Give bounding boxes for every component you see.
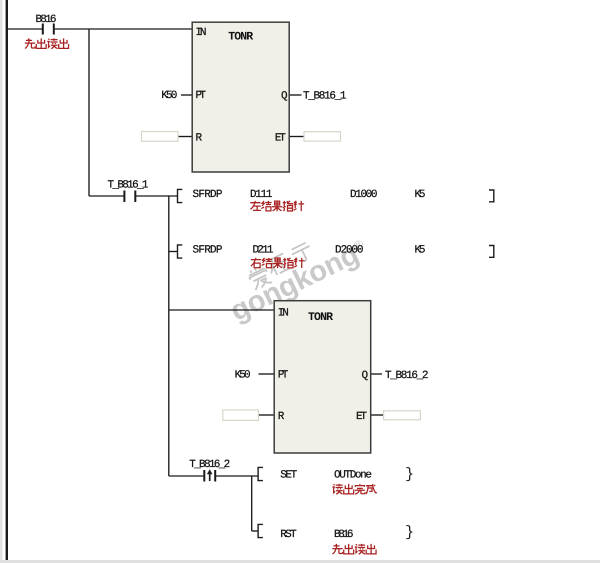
svg-text:D211: D211: [253, 244, 274, 256]
rising edge arrow: [207, 469, 213, 481]
wire rung1 left: [8, 28, 42, 30]
bracket ] row2: [489, 246, 494, 258]
TONR1 ET stub: [290, 136, 304, 138]
svg-text:PT: PT: [278, 370, 289, 382]
TONR2 ET stub: [371, 414, 384, 416]
TONR2 PT stub: [259, 373, 275, 375]
bracket [ RST row: [258, 524, 263, 537]
black labels: [36, 14, 429, 541]
svg-text:}: }: [405, 466, 414, 483]
svg-text:D1000: D1000: [350, 189, 378, 201]
box R1 input: [142, 132, 179, 142]
wire rung2 right: [136, 195, 177, 197]
contact T_B816_1 bars: [124, 191, 135, 203]
TONR2 R stub: [259, 414, 275, 416]
svg-text:Q: Q: [281, 90, 288, 102]
svg-text:B816: B816: [334, 529, 354, 541]
svg-text:D111: D111: [250, 189, 273, 201]
svg-text:T_B816_2: T_B816_2: [385, 370, 429, 382]
red note duchuwancheng: [332, 484, 342, 494]
TONR1 PT stub: [181, 94, 192, 96]
bracket [ SFRDP row2: [178, 245, 183, 258]
svg-text:D2000: D2000: [335, 244, 364, 256]
svg-text:}: }: [405, 524, 414, 541]
unconnected boxes: [142, 132, 421, 421]
svg-text:K5: K5: [415, 244, 426, 256]
bottom window strip: [0, 560, 600, 563]
svg-text:T_B816_1: T_B816_1: [303, 90, 347, 102]
wire branch2 vertical: [168, 196, 170, 476]
svg-text:K50: K50: [235, 370, 251, 382]
svg-text:TONR: TONR: [308, 311, 333, 324]
wire rung1 right: [55, 28, 192, 30]
svg-text:PT: PT: [196, 90, 207, 102]
svg-text:ET: ET: [275, 132, 286, 144]
red note zuojieguozhizhen: [250, 201, 261, 210]
wire rung4 right: [216, 475, 258, 477]
svg-text:R: R: [278, 411, 285, 423]
watermark gongkong: [219, 220, 373, 328]
bracket [ SFRDP row1: [178, 189, 183, 202]
wire stub SFRDP row2: [169, 251, 177, 253]
svg-text:IN: IN: [196, 27, 207, 39]
svg-text:RST: RST: [280, 529, 297, 541]
svg-text:SFRDP: SFRDP: [193, 189, 223, 201]
contact B816 bars: [43, 24, 54, 35]
wire rung4 left: [169, 475, 204, 477]
svg-text:TONR: TONR: [228, 31, 253, 44]
timer block TONR2: [274, 301, 371, 453]
svg-text:B816: B816: [36, 14, 57, 26]
contact T_B816_2 bars: [204, 470, 215, 482]
svg-text:K5: K5: [415, 189, 426, 201]
left window strip: [0, 0, 3, 563]
left power rail: [6, 0, 8, 560]
wire rung3 to TONR2: [169, 309, 274, 311]
box ET1 output: [304, 132, 341, 141]
TONR1 Q stub: [290, 94, 302, 96]
bracket [ SET row: [258, 467, 263, 480]
red annotations: [25, 38, 377, 554]
wire rung2 left: [89, 195, 124, 197]
block titles: [228, 31, 333, 324]
svg-text:Q: Q: [362, 370, 369, 382]
box ET2 output: [384, 411, 421, 420]
timer block TONR1: [192, 22, 289, 172]
TONR2 Q stub: [371, 373, 382, 375]
red note xianchuduchu RST: [332, 544, 342, 554]
wire branch3 vertical: [251, 476, 253, 531]
brackets: [178, 189, 494, 537]
bracket ] row1: [489, 190, 494, 202]
red note youjieguozhizhen: [251, 258, 261, 268]
svg-text:OUTDone: OUTDone: [334, 469, 372, 481]
svg-text:SFRDP: SFRDP: [193, 244, 223, 256]
svg-text:IN: IN: [278, 308, 289, 320]
svg-text:T_B816_1: T_B816_1: [108, 180, 149, 192]
svg-text:R: R: [196, 132, 203, 144]
red note xianchuduchu rung1: [25, 38, 35, 48]
svg-text:SET: SET: [280, 469, 297, 481]
box R2 input: [223, 410, 259, 420]
svg-text:K50: K50: [161, 90, 177, 102]
wire stub RST row: [252, 530, 258, 532]
TONR1 R stub: [179, 136, 193, 138]
wire branch1 vertical: [88, 29, 90, 196]
svg-text:T_B816_2: T_B816_2: [189, 459, 230, 471]
svg-text:ET: ET: [356, 411, 367, 423]
